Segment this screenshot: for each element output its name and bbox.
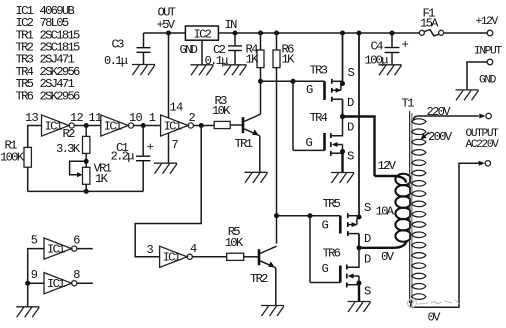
resistor R5 bbox=[225, 225, 258, 260]
node R6 top junction bbox=[274, 31, 279, 36]
node C2 junction bbox=[233, 31, 238, 36]
svg-text:13: 13 bbox=[25, 111, 39, 125]
wire IC2 GND lead bbox=[201, 40, 203, 65]
ground IC2 bbox=[191, 65, 214, 76]
ground inv EF bbox=[16, 307, 39, 318]
wire TR1 emitter to ground bbox=[259, 136, 261, 173]
svg-text:3.3K: 3.3K bbox=[56, 142, 81, 156]
node inv EF input junction bbox=[25, 281, 30, 286]
svg-text:3: 3 bbox=[147, 243, 154, 257]
wire rail TR3 source bbox=[342, 33, 344, 84]
transistor TR5 P-ch bbox=[310, 197, 371, 246]
svg-text:IN: IN bbox=[225, 18, 238, 32]
wire node Y to primary bottom bbox=[359, 241, 407, 248]
svg-text:10: 10 bbox=[129, 111, 143, 125]
svg-text:R2: R2 bbox=[63, 127, 76, 141]
terminal GND input bbox=[467, 59, 497, 90]
inverter IC1 gate F (9-8) bbox=[31, 268, 81, 294]
svg-text:4: 4 bbox=[190, 242, 197, 256]
parts list bbox=[16, 4, 81, 104]
wire TR4 source to ground bbox=[341, 153, 343, 172]
svg-text:10A: 10A bbox=[376, 204, 395, 218]
transistor TR6 N-ch bbox=[310, 247, 371, 299]
svg-text:IC1: IC1 bbox=[47, 242, 65, 256]
wire inv C out node bbox=[193, 125, 214, 127]
svg-text:5: 5 bbox=[31, 233, 38, 247]
node Y junction bbox=[357, 245, 362, 250]
svg-text:10K: 10K bbox=[225, 236, 244, 250]
fuse F1 15A bbox=[419, 6, 443, 35]
capacitor C4 electrolytic bbox=[365, 33, 409, 67]
wire gate link TR5-TR6 bbox=[309, 216, 311, 283]
svg-text:TR6: TR6 bbox=[323, 247, 341, 261]
svg-text:T1: T1 bbox=[402, 97, 415, 111]
svg-text:GND: GND bbox=[479, 74, 497, 86]
resistor R1 bbox=[0, 139, 31, 192]
svg-text:IC1: IC1 bbox=[163, 251, 181, 265]
ground C2 bbox=[224, 65, 247, 76]
terminal AC output 2 bbox=[479, 161, 491, 166]
transistor TR4 N-ch bbox=[293, 111, 354, 163]
svg-text:TR1: TR1 bbox=[235, 137, 253, 151]
svg-text:0.1μ: 0.1μ bbox=[205, 54, 229, 68]
node TR3 source junction bbox=[340, 81, 345, 86]
svg-text:C3: C3 bbox=[112, 38, 125, 52]
capacitor C3 bbox=[104, 33, 151, 68]
wire pin14 +5V bbox=[168, 33, 170, 118]
wire TR1 collector to R4 bbox=[260, 81, 262, 114]
wire main +12V rail bbox=[218, 32, 419, 34]
svg-text:TR4: TR4 bbox=[310, 111, 328, 125]
transformer core bbox=[410, 111, 412, 303]
node TR5 source junction bbox=[357, 215, 362, 220]
wire inv D out to R5 bbox=[192, 256, 226, 258]
wire rail B +12V to TR5 bbox=[358, 33, 360, 216]
svg-text:C4: C4 bbox=[371, 40, 384, 54]
svg-text:12: 12 bbox=[70, 111, 84, 125]
wire primary top entry bbox=[375, 176, 407, 183]
resistor R4 bbox=[246, 33, 265, 81]
svg-text:7: 7 bbox=[172, 138, 179, 152]
capacitor C2 bbox=[205, 33, 243, 68]
label OUT +5V bbox=[157, 6, 176, 33]
wire 220V tap bbox=[413, 116, 479, 121]
svg-text:0.1μ: 0.1μ bbox=[104, 54, 128, 68]
svg-text:IC1: IC1 bbox=[47, 277, 65, 291]
node VR1 bottom junction bbox=[84, 189, 89, 194]
transistor TR1 bbox=[235, 114, 261, 151]
svg-text:IC1: IC1 bbox=[104, 119, 122, 133]
wire pin2 to inverter D input bbox=[135, 126, 201, 257]
resistor R6 bbox=[273, 33, 295, 244]
ground TR2 bbox=[261, 306, 284, 317]
wire TR3 drain to node X bbox=[342, 99, 344, 116]
svg-text:TR2: TR2 bbox=[250, 272, 268, 286]
node pin2 junction bbox=[199, 123, 204, 128]
svg-text:1: 1 bbox=[149, 111, 156, 125]
IC2 U-reg box bbox=[180, 18, 238, 57]
wire inv E output stub bbox=[77, 248, 93, 250]
node TR6 source junction bbox=[357, 281, 362, 286]
svg-text:2: 2 bbox=[189, 111, 196, 125]
ground IC1 pin7 bbox=[154, 163, 177, 174]
watermark bbox=[408, 299, 460, 310]
wire TR3-TR4 gate node bbox=[261, 80, 294, 82]
wire pin13 input bbox=[28, 126, 42, 148]
node gate link TR5 junction bbox=[308, 213, 313, 218]
wire gate link TR3-TR4 bbox=[292, 81, 294, 150]
wire inv F output stub bbox=[77, 282, 93, 284]
wire inv A out to inv B in bbox=[74, 125, 101, 127]
ground C3 bbox=[132, 65, 155, 76]
svg-text:TR3: TR3 bbox=[310, 64, 328, 78]
node TR4 source junction bbox=[340, 149, 345, 154]
svg-text:15A: 15A bbox=[420, 16, 439, 30]
wire TR2 collector gate node bbox=[277, 215, 311, 217]
ground input GND bbox=[456, 90, 479, 101]
ground TR4 bbox=[331, 173, 354, 184]
svg-text:2SK2956: 2SK2956 bbox=[40, 90, 81, 104]
node C4 junction bbox=[390, 31, 395, 36]
wire pin7 to ground bbox=[168, 133, 170, 163]
wire TR6 source to ground bbox=[358, 285, 360, 302]
svg-text:IC2: IC2 bbox=[194, 27, 212, 41]
svg-text:220V: 220V bbox=[427, 105, 452, 119]
inverter IC1 gate E (5-6) bbox=[31, 233, 81, 259]
wire TR5 drain to node Y bbox=[358, 234, 360, 248]
svg-text:9: 9 bbox=[31, 268, 38, 282]
svg-text:14: 14 bbox=[170, 100, 184, 114]
node X junction bbox=[340, 114, 345, 119]
node rail B top bbox=[357, 31, 362, 36]
ground C4 bbox=[379, 65, 402, 76]
wire inv E input bbox=[28, 249, 44, 284]
resistor R3 bbox=[212, 94, 242, 129]
svg-text:200V: 200V bbox=[428, 130, 453, 144]
wire inv EF to ground bbox=[27, 283, 29, 307]
svg-text:+12V: +12V bbox=[476, 16, 499, 28]
inverter IC1 gate A (13-12) bbox=[25, 111, 84, 136]
svg-text:GND: GND bbox=[180, 43, 198, 57]
transformer secondary winding bbox=[412, 119, 426, 300]
inverter IC1 gate C (1-2) bbox=[149, 100, 196, 152]
svg-text:12V: 12V bbox=[378, 159, 397, 173]
svg-text:TR5: TR5 bbox=[323, 197, 341, 211]
svg-text:6: 6 bbox=[73, 233, 80, 247]
wire AC output second terminal bbox=[411, 163, 480, 307]
svg-text:TR6: TR6 bbox=[16, 90, 34, 104]
node R4-TR1-gate junction bbox=[258, 79, 263, 84]
node pin12 junction bbox=[84, 123, 89, 128]
svg-text:100K: 100K bbox=[0, 150, 25, 164]
node TR2 collector junction bbox=[274, 213, 279, 218]
svg-text:IC1: IC1 bbox=[45, 119, 63, 133]
resistor R2 bbox=[56, 126, 90, 168]
terminal 220V output bbox=[479, 113, 491, 118]
svg-text:8: 8 bbox=[73, 268, 80, 282]
wire inv F input bbox=[28, 282, 44, 284]
node rail A top bbox=[340, 31, 345, 36]
ground TR6 bbox=[348, 302, 371, 313]
node R4 top junction bbox=[258, 31, 263, 36]
transistor TR2 bbox=[250, 246, 277, 286]
svg-text:AC220V: AC220V bbox=[466, 139, 500, 151]
tap 200V arrow bbox=[421, 133, 429, 140]
transformer T1 primary coil bbox=[395, 174, 411, 242]
potentiometer VR1 bbox=[70, 161, 112, 191]
ground TR1 bbox=[245, 172, 268, 183]
node pin1 junction bbox=[141, 123, 146, 128]
svg-text:INPUT: INPUT bbox=[474, 46, 502, 58]
svg-text:+5V: +5V bbox=[157, 18, 176, 32]
capacitor C1 bbox=[111, 126, 154, 192]
terminal +12V bbox=[474, 16, 502, 57]
svg-text:10K: 10K bbox=[212, 104, 231, 118]
inverter IC1 gate D (3-4) bbox=[147, 242, 198, 268]
wire +5V rail bbox=[144, 32, 186, 34]
wire node X to primary top bbox=[343, 117, 375, 177]
wire TR2 emitter to ground bbox=[275, 268, 277, 306]
svg-text:2.2μ: 2.2μ bbox=[111, 150, 135, 164]
wire fuse to +12V terminal bbox=[444, 32, 488, 34]
node +5V junction bbox=[166, 31, 171, 36]
svg-text:11: 11 bbox=[89, 111, 103, 125]
svg-text:IC1: IC1 bbox=[164, 119, 182, 133]
inverter IC1 gate B (11-10) bbox=[89, 111, 143, 136]
transistor TR3 P-ch bbox=[293, 64, 355, 110]
wire inv B out to inv C in bbox=[134, 125, 161, 127]
node gate link top bbox=[291, 79, 296, 84]
node R2-VR1 junction bbox=[84, 159, 89, 164]
wire oscillator bottom rail bbox=[28, 190, 144, 192]
